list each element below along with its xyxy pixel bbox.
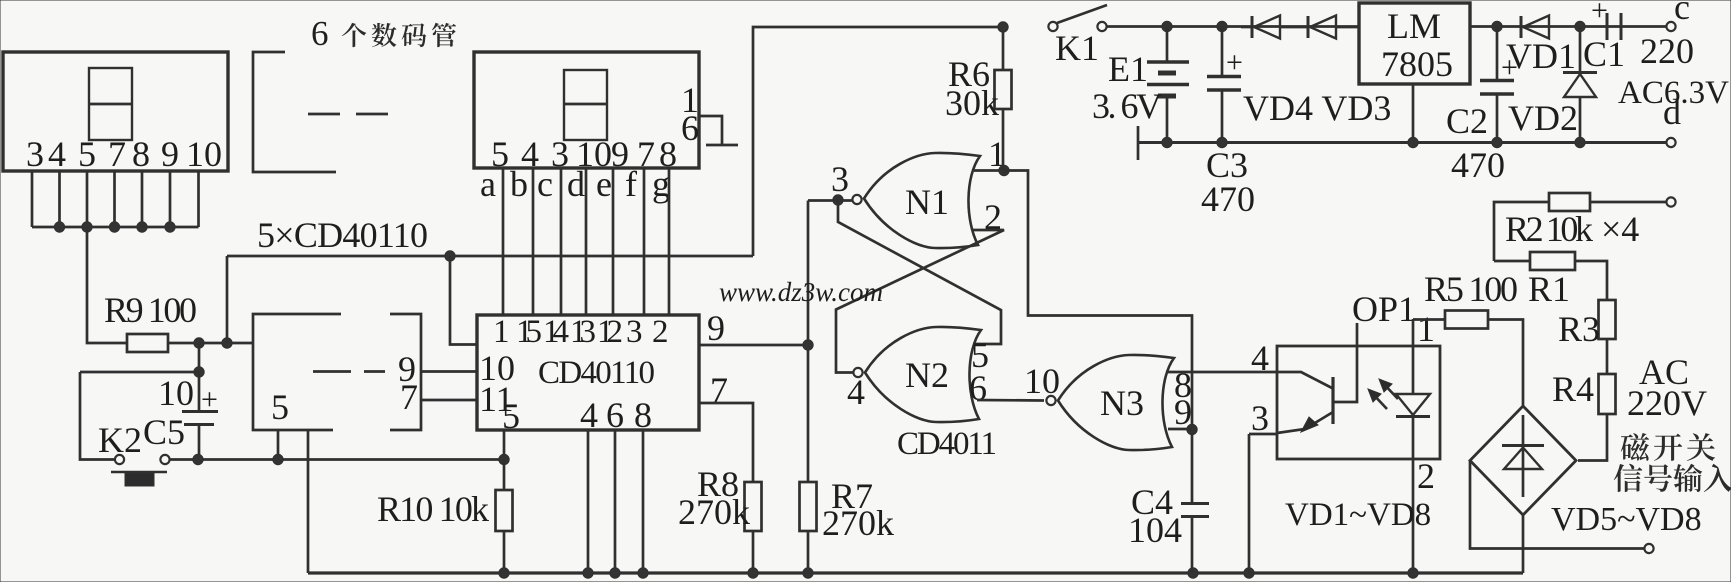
wire C5 top bracket (80, 371, 199, 374)
svg-text:6: 6 (311, 14, 329, 53)
junction (1187, 424, 1197, 434)
resistor R5 100 (1445, 311, 1488, 329)
resistor R1 (1530, 252, 1575, 270)
svg-text:220V: 220V (1627, 383, 1707, 423)
wire common bus under DS1 (32, 226, 199, 229)
wire LED top to R5 (1413, 318, 1445, 321)
wire pin8 of DS1 (141, 171, 144, 227)
wire LM7805 output (1470, 25, 1666, 28)
junction (803, 568, 813, 578)
wire segment a DS6 to CD40110 (502, 168, 505, 315)
wire R5 to bridge top (1488, 320, 1523, 407)
wire down to C5 node (198, 343, 201, 372)
svg-text:R2 10k: R2 10k (1505, 209, 1593, 249)
svg-text:g: g (652, 164, 670, 204)
wire supply rail y=256 (227, 255, 753, 258)
ellipsis dashes in partial display (308, 113, 340, 116)
svg-text:+: + (201, 383, 218, 416)
junction (222, 338, 232, 348)
svg-text:220: 220 (1640, 31, 1694, 71)
svg-text:K1: K1 (1055, 28, 1099, 68)
junction (193, 454, 203, 464)
wire N2 pin6 to N3 output (977, 399, 1044, 402)
svg-text:C5: C5 (143, 412, 185, 452)
optocoupler OP1 box (1277, 346, 1440, 459)
svg-text:6: 6 (606, 395, 624, 435)
junction (1217, 137, 1227, 147)
switch K1 (1048, 22, 1057, 31)
7-segment symbol of DS6 (564, 70, 607, 140)
svg-text:2: 2 (1417, 456, 1435, 496)
junction (273, 454, 283, 464)
svg-text:×4: ×4 (1601, 209, 1639, 249)
svg-text:7: 7 (400, 377, 418, 417)
svg-text:3: 3 (831, 159, 849, 199)
svg-text:12: 12 (597, 314, 623, 350)
junction (1162, 137, 1172, 147)
svg-text:8: 8 (634, 395, 652, 435)
wire N1 input pin2 to N2 output (836, 230, 1004, 373)
wire pin4 of DS1 (58, 171, 61, 227)
capacitor C5 10uF (198, 372, 201, 411)
svg-text:R5 100: R5 100 (1424, 269, 1518, 309)
svg-text:f: f (625, 164, 637, 204)
junction (1162, 21, 1172, 31)
junction (54, 222, 64, 232)
capacitor C1 220 (1606, 13, 1609, 40)
svg-text:4: 4 (580, 395, 598, 435)
svg-text:R9 100: R9 100 (104, 290, 197, 330)
wire up to supply rail (226, 256, 229, 343)
wire down to R7 (807, 201, 810, 483)
svg-text:30k: 30k (945, 83, 999, 123)
terminal R2 (1666, 197, 1675, 206)
svg-text:N2: N2 (905, 355, 949, 395)
svg-text:3. 6V: 3. 6V (1092, 86, 1162, 126)
resistor R2 (1549, 193, 1590, 211)
junction (82, 222, 92, 232)
svg-text:CD40110: CD40110 (538, 355, 655, 391)
svg-text:LM: LM (1387, 6, 1441, 46)
svg-text:d: d (1663, 92, 1681, 132)
wire K1 to LM7805 (1106, 25, 1359, 28)
wire OP1 pin3 down to ground (1249, 433, 1277, 436)
capacitor C3 470 (1221, 27, 1224, 76)
wire segment f DS6 to CD40110 (643, 168, 646, 315)
svg-text:+: + (1591, 0, 1608, 27)
svg-text:5×CD40110: 5×CD40110 (257, 215, 428, 255)
junction N1 output (833, 195, 843, 205)
wire left bracket down to K2 (80, 372, 114, 460)
junction (1492, 21, 1502, 31)
wire N1 pin1 node to N3 (1004, 171, 1192, 504)
wire from supply rail into CD40110 (450, 256, 477, 345)
svg-text:R10 10k: R10 10k (377, 489, 489, 529)
NAND gate N1 (864, 153, 980, 248)
wire N3 pin8 to OP1 (1166, 371, 1277, 374)
junction (1408, 137, 1418, 147)
counter IC U1 CD40110 (477, 315, 699, 430)
wire pin3 of DS1 (31, 171, 34, 227)
svg-text:9: 9 (161, 134, 179, 174)
svg-text:c: c (537, 164, 553, 204)
svg-text:9: 9 (707, 308, 725, 348)
wire K2 to CD40110 pin5 row (170, 458, 504, 461)
diode VD1 (1520, 16, 1523, 38)
junction (998, 22, 1008, 32)
wire segment c DS6 to CD40110 (560, 168, 563, 315)
NAND gate N2 (865, 327, 981, 422)
svg-text:5: 5 (78, 134, 96, 174)
capacitor C4 104 (1181, 502, 1209, 505)
wire LM7805 gnd (1412, 84, 1415, 143)
svg-text:10: 10 (158, 373, 194, 413)
resistor R4 (1599, 374, 1616, 414)
svg-text:470: 470 (1201, 179, 1255, 219)
svg-text:8: 8 (132, 134, 150, 174)
junction (194, 338, 204, 348)
wire pin5 of DS1 (86, 171, 89, 227)
junction (109, 222, 119, 232)
svg-text:3: 3 (626, 314, 643, 350)
svg-text:OP1: OP1 (1352, 289, 1416, 329)
diode VD3 (1307, 16, 1310, 38)
pushbutton K2 (115, 455, 124, 464)
svg-text:d: d (567, 164, 585, 204)
svg-text:3: 3 (26, 134, 44, 174)
junction (638, 568, 648, 578)
wire pin9 output (699, 344, 808, 347)
wire top supply (753, 27, 1003, 256)
regulator U2 LM7805 (1359, 3, 1470, 84)
junction (499, 568, 509, 578)
svg-text:2: 2 (652, 314, 669, 350)
resistor R8 (745, 482, 762, 531)
svg-text:E1: E1 (1108, 49, 1148, 89)
wire pin8 down (642, 430, 645, 573)
label xin hao shu ru (signal input) (1614, 464, 1643, 492)
svg-text:C1: C1 (1583, 34, 1625, 74)
wire pin6 down (614, 430, 617, 573)
svg-text:6: 6 (681, 108, 699, 148)
wire segment b DS6 to CD40110 (532, 168, 535, 315)
svg-text:+: + (1501, 51, 1518, 84)
diode VD4 (1251, 16, 1254, 38)
resistor R7 (800, 482, 817, 531)
wire mid ground rail (1138, 141, 1666, 144)
svg-text:VD4 VD3: VD4 VD3 (1243, 88, 1391, 128)
light arrows of OP1 (1371, 392, 1387, 409)
svg-text:14: 14 (543, 314, 569, 350)
wire N1 output to N2 input pin5 (838, 200, 1001, 344)
svg-text:VD2: VD2 (1508, 98, 1578, 138)
svg-text:15: 15 (516, 314, 542, 350)
label ci kai guan (magnetic switch) (1621, 433, 1649, 461)
svg-text:CD4011: CD4011 (897, 426, 997, 462)
phototransistor of OP1 (1277, 372, 1332, 388)
wire segment g DS6 to CD40110 (668, 168, 671, 315)
svg-text:10: 10 (186, 134, 222, 174)
wire pin7 of DS1 (113, 171, 116, 227)
wire segment d DS6 to CD40110 (585, 168, 588, 315)
svg-text:5: 5 (271, 387, 289, 427)
wire N3 pin9 stub (1168, 428, 1192, 431)
svg-text:4: 4 (1251, 338, 1269, 378)
resistor R10 10k (503, 460, 506, 491)
wire R2 right (1590, 201, 1666, 204)
wire to R1 (1494, 260, 1530, 263)
wire R3 to R4 (1606, 339, 1609, 374)
svg-text:R4: R4 (1552, 369, 1594, 409)
bridge rectifier VD5-VD8 (1470, 406, 1576, 515)
pin6 common terminal symbol (699, 116, 722, 145)
capacitor C2 470 (1496, 27, 1499, 80)
svg-text:+: + (1226, 46, 1243, 79)
junction (194, 367, 204, 377)
resistor R6 30k (1002, 27, 1005, 70)
svg-text:K2: K2 (98, 420, 142, 460)
partial display box (repeat indication) (253, 52, 336, 172)
svg-text:VD5~VD8: VD5~VD8 (1551, 501, 1702, 538)
svg-text:13: 13 (570, 314, 596, 350)
svg-text:a: a (480, 164, 496, 204)
junction (999, 165, 1009, 175)
wire N1 input pin1 (974, 169, 1004, 172)
junction (1188, 568, 1198, 578)
battery E1 3.6V (1166, 27, 1169, 62)
junction (165, 222, 175, 232)
wire DS1 pin5 to R9 (87, 227, 127, 343)
svg-text:N1: N1 (905, 182, 949, 222)
wire pin9 of DS1 (169, 171, 172, 227)
wire R1 to R3 (1575, 261, 1607, 300)
wire R9 to partial box (168, 342, 253, 345)
junction (803, 340, 813, 350)
svg-text:1: 1 (1417, 309, 1435, 349)
svg-text:e: e (596, 164, 612, 204)
svg-text:270k: 270k (678, 492, 750, 532)
svg-text:R3: R3 (1558, 309, 1600, 349)
wire pin10 stub (421, 370, 477, 373)
junction (1244, 568, 1254, 578)
svg-text:7: 7 (108, 134, 126, 174)
digital display DS1 (7-segment, left block) (3, 52, 228, 171)
svg-text:4: 4 (48, 134, 66, 174)
wire pin7 output (699, 403, 753, 482)
junction (610, 568, 620, 578)
junction (137, 222, 147, 232)
7-segment symbol of DS1 (89, 68, 132, 140)
terminal AC in (1644, 544, 1653, 553)
svg-text:1: 1 (493, 314, 510, 350)
svg-text:270k: 270k (822, 503, 894, 543)
svg-text:R1: R1 (1528, 269, 1570, 309)
wire pin11 stub (421, 399, 477, 402)
junction (1408, 568, 1418, 578)
wire partial box pin5 down (277, 430, 280, 460)
junction (445, 251, 455, 261)
svg-text:104: 104 (1128, 510, 1182, 550)
wire R4 to bridge (1578, 414, 1607, 461)
LED of OP1 (1412, 319, 1415, 395)
junction (1575, 137, 1585, 147)
svg-text:VD1~VD8: VD1~VD8 (1285, 497, 1431, 533)
wire ground rail (308, 571, 1523, 574)
resistor R9 (127, 334, 168, 352)
wire partial box to ground rail (307, 430, 310, 573)
svg-text:www.dz3w.com: www.dz3w.com (719, 277, 883, 307)
svg-text:N3: N3 (1100, 383, 1144, 423)
svg-text:c: c (1674, 0, 1690, 27)
resistor R3 (1599, 300, 1616, 339)
svg-text:7805: 7805 (1381, 44, 1453, 84)
wire N1 out to left (808, 199, 853, 202)
digital display DS6 (7-segment, right block) (474, 52, 699, 168)
wire segment e DS6 to CD40110 (612, 168, 615, 315)
wire pin10 of DS1 (197, 171, 200, 227)
junction (583, 568, 593, 578)
partial CD40110 box (repeat indication) (253, 314, 341, 430)
svg-text:10: 10 (1024, 361, 1060, 401)
svg-text:C2: C2 (1446, 101, 1488, 141)
junction (499, 454, 509, 464)
junction (1492, 137, 1502, 147)
wire R2 left (1494, 202, 1549, 261)
wire bridge bottom to ground (1522, 515, 1525, 573)
svg-text:b: b (510, 164, 528, 204)
junction (748, 568, 758, 578)
svg-text:3: 3 (1251, 398, 1269, 438)
rail end tick (1137, 126, 1140, 160)
svg-text:470: 470 (1451, 145, 1505, 185)
svg-text:4: 4 (847, 372, 865, 412)
terminal d (1666, 138, 1675, 147)
wire pin5 down (503, 430, 506, 460)
junction (1575, 21, 1585, 31)
junction (1217, 21, 1227, 31)
diode VD2 (1579, 27, 1582, 73)
svg-text:6: 6 (969, 368, 987, 408)
wire bridge left to AC terminal (1470, 461, 1644, 549)
wire pin4 down (587, 430, 590, 573)
NAND gate N3 (1058, 355, 1174, 450)
ellipsis dashes in partial box (313, 370, 351, 373)
terminal c (1666, 22, 1675, 31)
